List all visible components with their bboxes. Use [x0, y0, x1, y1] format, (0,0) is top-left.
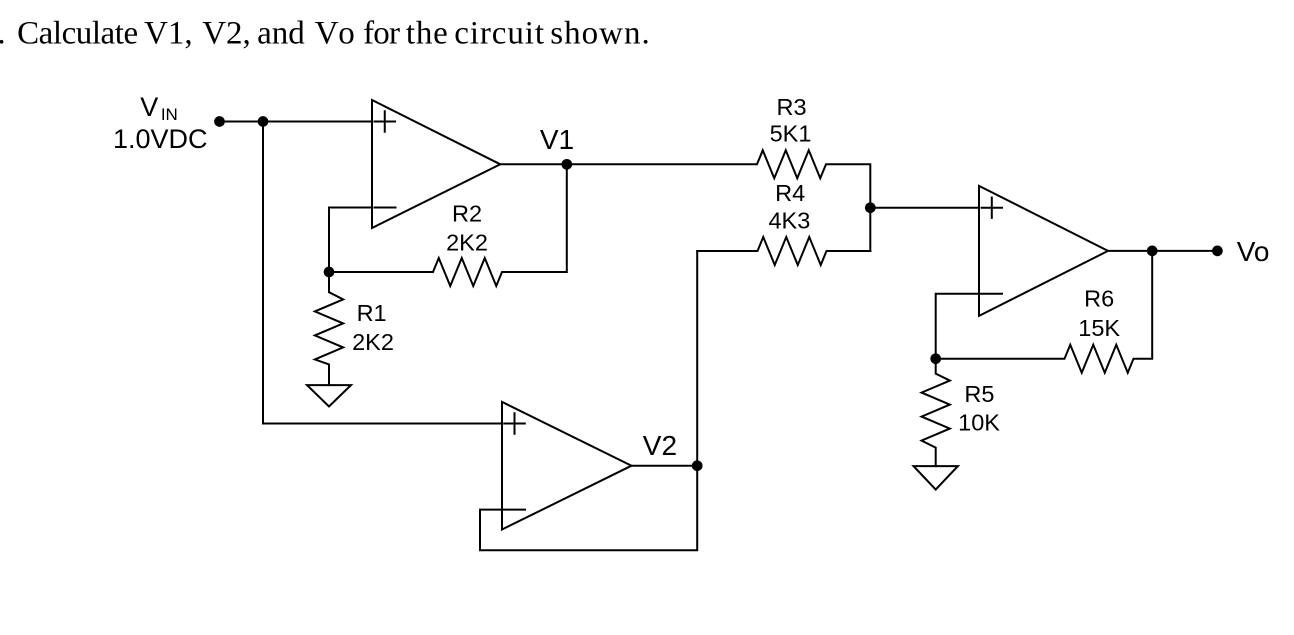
svg-text:V2,: V2,	[202, 16, 251, 52]
svg-text:and: and	[257, 16, 305, 52]
svg-text:1.0VDC: 1.0VDC	[113, 124, 208, 154]
svg-text:V1,: V1,	[144, 16, 193, 52]
svg-text:2K2: 2K2	[446, 230, 488, 256]
svg-text:4K3: 4K3	[768, 208, 810, 234]
svg-text:the: the	[406, 16, 449, 52]
svg-text:Calculate: Calculate	[17, 16, 138, 52]
svg-text:Vo: Vo	[315, 16, 359, 52]
svg-text:2K2: 2K2	[352, 329, 394, 355]
svg-text:circuit: circuit	[454, 16, 545, 52]
svg-text:V1: V1	[540, 124, 574, 155]
svg-text:R1: R1	[357, 300, 387, 326]
svg-text:R6: R6	[1084, 286, 1114, 312]
svg-text:15K: 15K	[1078, 315, 1120, 341]
svg-text:10K: 10K	[958, 410, 1000, 436]
svg-text:.: .	[0, 16, 6, 52]
svg-text:R4: R4	[775, 180, 805, 206]
svg-text:R2: R2	[452, 201, 482, 227]
svg-text:V2: V2	[643, 430, 677, 461]
svg-text:for: for	[363, 16, 400, 52]
svg-text:Vo: Vo	[1237, 236, 1270, 267]
svg-text:R5: R5	[964, 381, 994, 407]
svg-text:R3: R3	[776, 94, 806, 120]
svg-text:shown.: shown.	[550, 16, 650, 52]
svg-text:5K1: 5K1	[770, 121, 812, 147]
